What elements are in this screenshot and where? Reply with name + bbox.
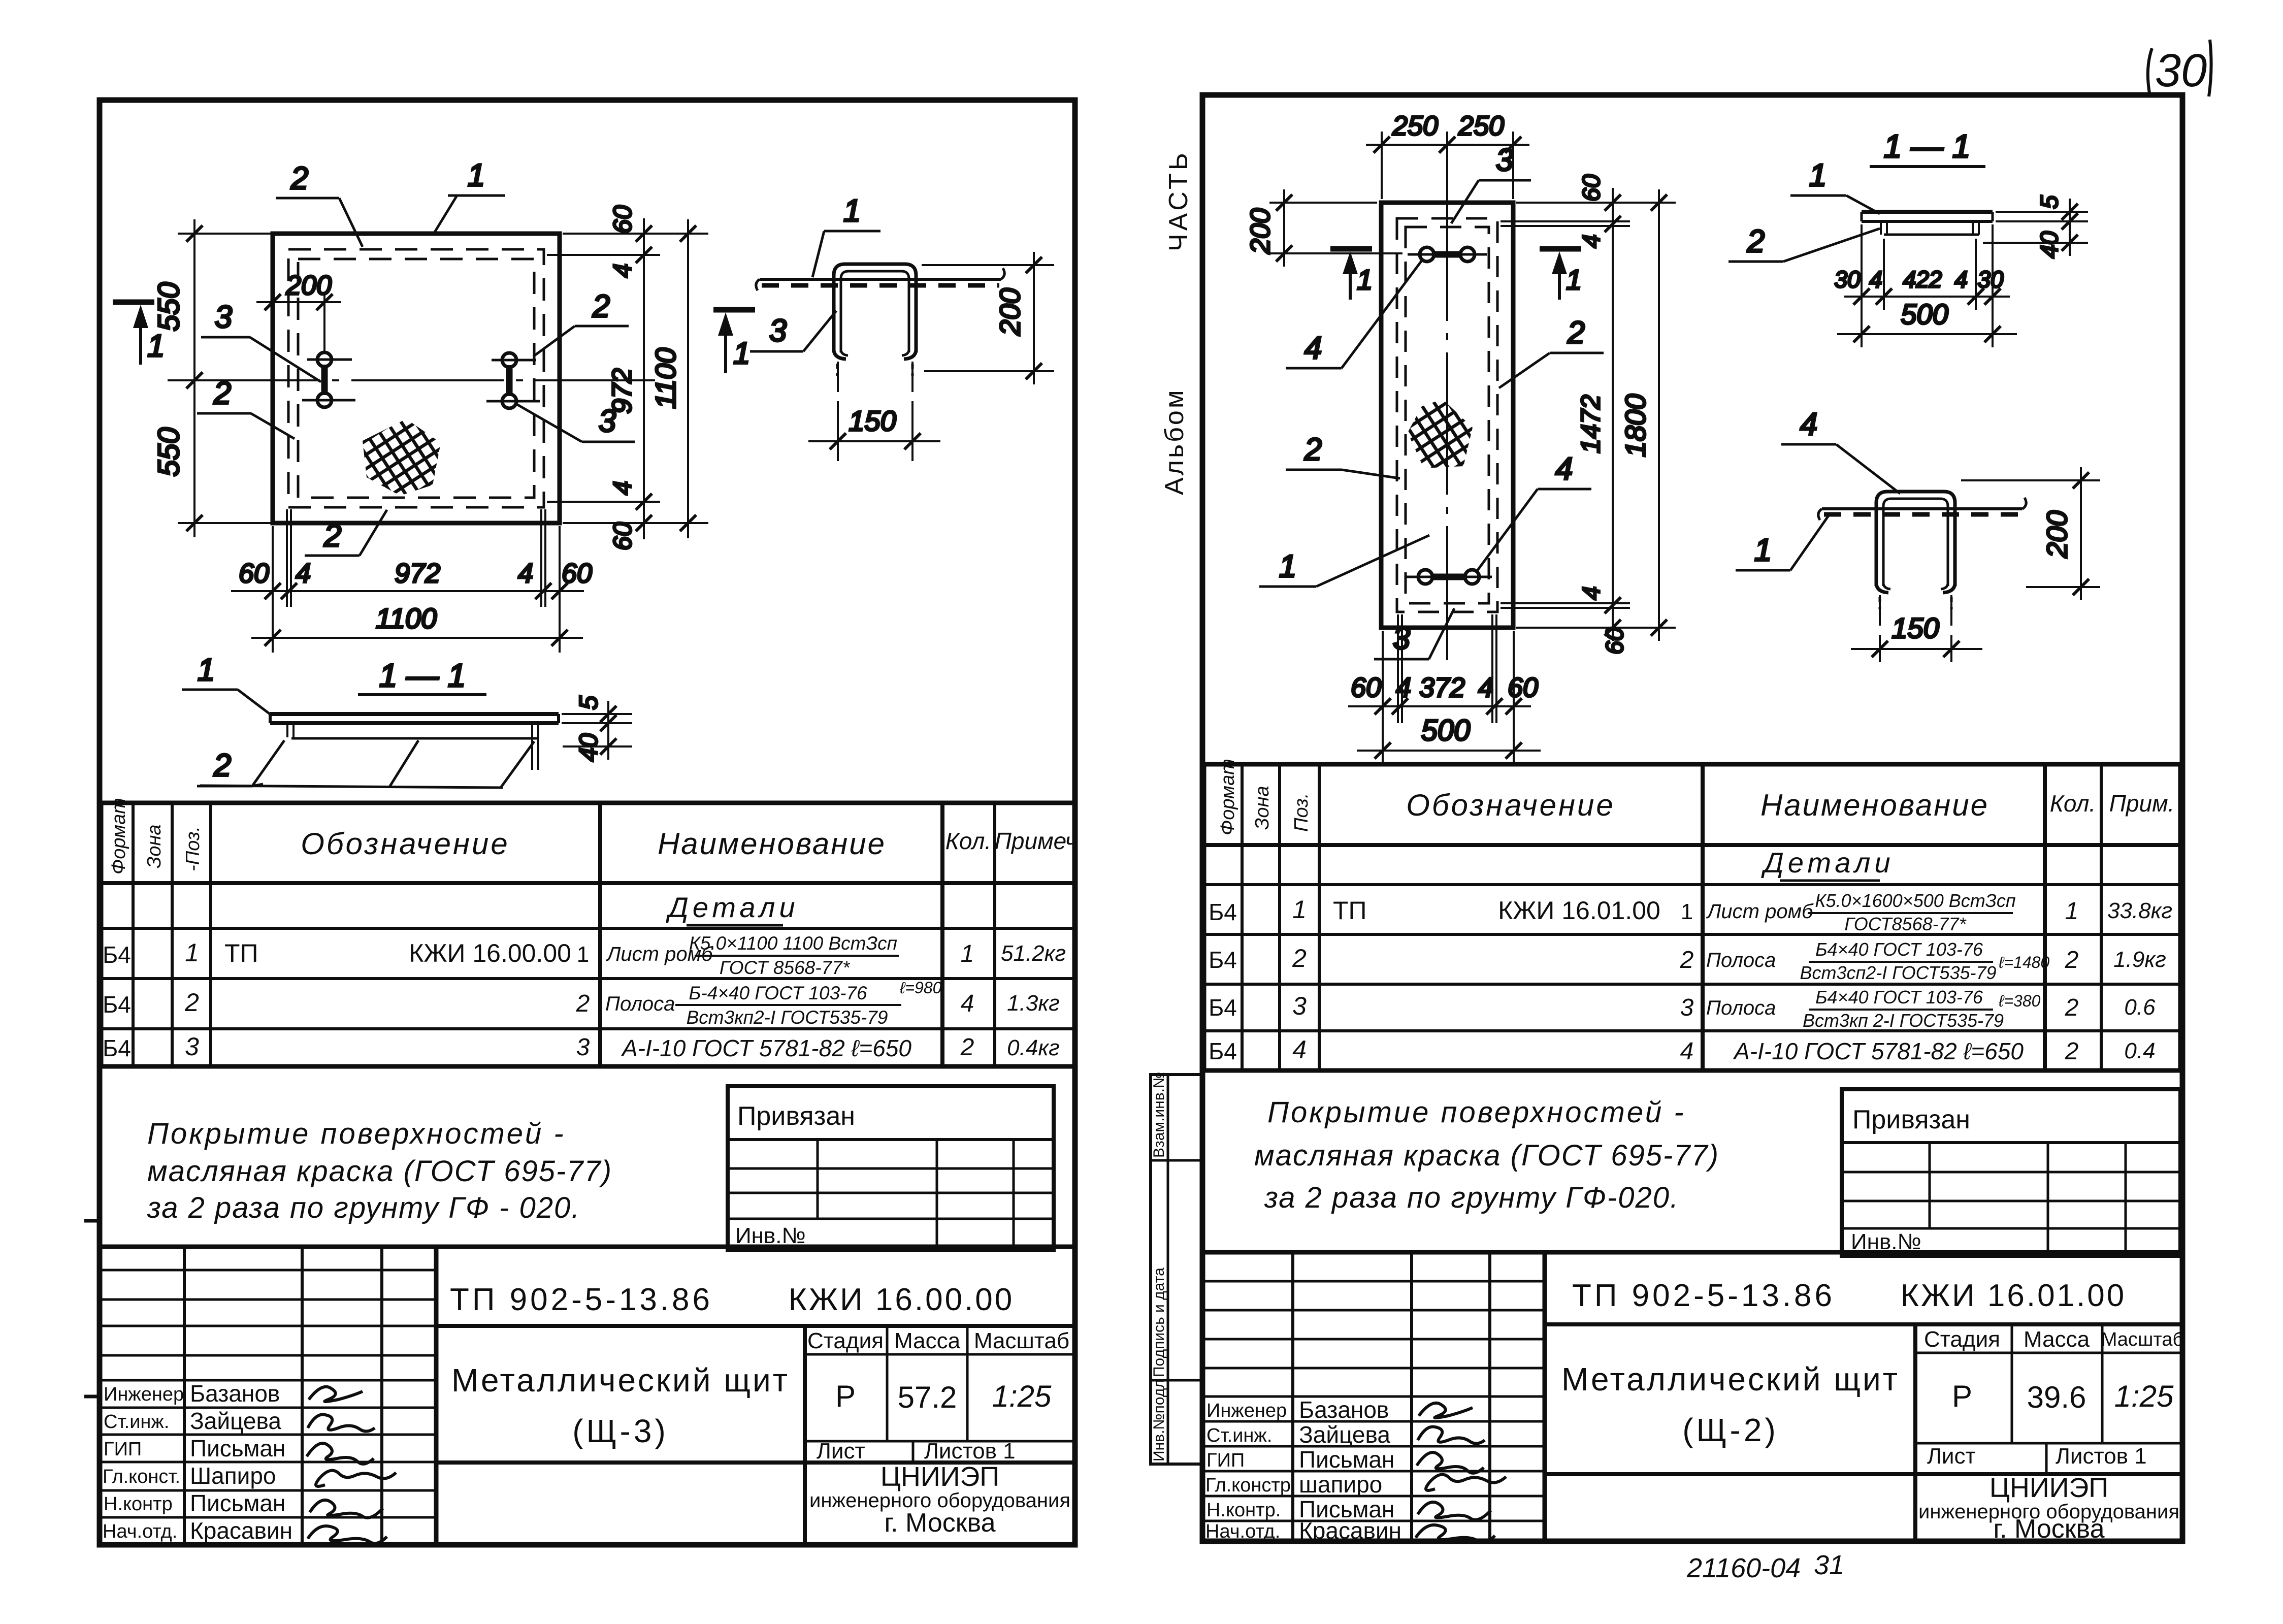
- dim 150 (clamp width): [837, 362, 839, 461]
- dim 200 (left): [1245, 189, 1403, 267]
- svg-text:2: 2: [184, 988, 199, 1017]
- title block grid: [1202, 1250, 2182, 1255]
- dims bottom: 60 4 372 4 60: [1348, 614, 1538, 723]
- svg-text:1: 1: [1279, 549, 1296, 584]
- plate 1 (section): [1862, 210, 1993, 214]
- svg-text:Поз.: Поз.: [1291, 793, 1312, 832]
- svg-text:шапиро: шапиро: [1299, 1471, 1382, 1498]
- svg-text:2: 2: [1567, 315, 1585, 350]
- handle 3 (right): [486, 353, 540, 408]
- svg-text:2: 2: [960, 1034, 974, 1061]
- svg-text:Инженер: Инженер: [104, 1384, 184, 1405]
- RIGHT-SECTION-11: [1728, 128, 2088, 347]
- page number 30: [2148, 40, 2211, 96]
- svg-text:Б4: Б4: [103, 1035, 131, 1061]
- section mark 1 (left): [113, 302, 165, 365]
- svg-text:Масштаб: Масштаб: [974, 1328, 1069, 1353]
- dim 200: [1961, 479, 2100, 481]
- svg-text:(Щ-2): (Щ-2): [1682, 1412, 1779, 1448]
- RIGHT-TITLEBLOCK: [1202, 1252, 2183, 1544]
- svg-text:1: 1: [961, 940, 974, 967]
- dim 500: [1837, 298, 2017, 347]
- LEFT-NOTE-AND-PRIV: [147, 1086, 1054, 1250]
- RIGHT-NOTE-AND-PRIV: [1254, 1089, 2180, 1256]
- handle 3 (left): [302, 352, 355, 407]
- margin boxes (right sheet): [1151, 1075, 1202, 1464]
- svg-text:Красавин: Красавин: [1299, 1517, 1401, 1544]
- svg-text:1: 1: [1809, 158, 1827, 193]
- fraction bars + detail underline: [687, 924, 783, 927]
- svg-text:1: 1: [733, 336, 750, 370]
- svg-text:5: 5: [2036, 195, 2063, 209]
- svg-text:Прим.: Прим.: [2109, 790, 2175, 817]
- callout 3 (left): [201, 300, 321, 382]
- svg-text:ТП: ТП: [224, 939, 258, 967]
- svg-text:1: 1: [2065, 898, 2079, 925]
- svg-text:г. Москва: г. Москва: [1993, 1514, 2104, 1544]
- svg-text:Письман: Письман: [190, 1435, 285, 1461]
- svg-text:3: 3: [1680, 994, 1694, 1021]
- svg-text:33.8кг: 33.8кг: [2107, 898, 2172, 923]
- dim 40: [1983, 242, 2088, 244]
- svg-text:1:25: 1:25: [992, 1379, 1052, 1413]
- svg-text:60: 60: [608, 205, 637, 234]
- svg-text:1100: 1100: [649, 348, 681, 409]
- dim 5: [1996, 211, 2088, 213]
- svg-text:Б4: Б4: [103, 941, 131, 968]
- svg-text:А-I-10 ГОСТ 5781-82 ℓ=650: А-I-10 ГОСТ 5781-82 ℓ=650: [621, 1035, 911, 1061]
- hatch patch: [1408, 399, 1473, 468]
- svg-text:1: 1: [198, 653, 215, 688]
- svg-text:(Щ-3): (Щ-3): [572, 1413, 669, 1449]
- RIGHT-CHANNEL-DETAIL: [1736, 407, 2100, 662]
- handle 4 (top): [1408, 247, 1487, 262]
- coating note: [147, 1117, 612, 1224]
- svg-text:4: 4: [1954, 266, 1968, 293]
- svg-text:1: 1: [1681, 899, 1693, 924]
- svg-text:0.6: 0.6: [2124, 995, 2156, 1020]
- svg-text:Ст.инж.: Ст.инж.: [104, 1411, 169, 1433]
- name box: [1913, 1324, 1917, 1474]
- names: [1299, 1396, 1401, 1544]
- svg-text:4: 4: [608, 264, 637, 278]
- svg-text:Лист: Лист: [817, 1439, 865, 1464]
- svg-text:Зайцева: Зайцева: [1299, 1421, 1390, 1448]
- svg-text:4: 4: [1578, 587, 1605, 600]
- svg-text:Письман: Письман: [1299, 1446, 1394, 1473]
- underline + fraction bars: [1780, 880, 1880, 882]
- svg-text:60: 60: [1508, 672, 1538, 703]
- svg-text:Подпись и дата: Подпись и дата: [1151, 1268, 1167, 1377]
- svg-text:1800: 1800: [1619, 394, 1651, 458]
- strip 2 bottom edge: [291, 737, 539, 740]
- svg-text:3: 3: [185, 1032, 199, 1061]
- svg-text:ТП: ТП: [1333, 896, 1366, 925]
- svg-text:Б-4×40 ГОСТ 103-76: Б-4×40 ГОСТ 103-76: [689, 983, 867, 1003]
- RIGHT-SHEET-FRAME: [1202, 95, 2182, 1541]
- svg-text:ГИП: ГИП: [1206, 1450, 1245, 1471]
- svg-text:Инженер: Инженер: [1206, 1400, 1287, 1421]
- svg-text:3: 3: [1292, 992, 1307, 1020]
- svg-text:4: 4: [1292, 1035, 1307, 1064]
- svg-text:2: 2: [592, 289, 610, 324]
- svg-text:КЖИ 16.00.00: КЖИ 16.00.00: [409, 939, 571, 967]
- svg-text:Кол.: Кол.: [945, 828, 991, 854]
- section mark 1 (detail): [713, 307, 755, 313]
- svg-text:500: 500: [1421, 714, 1471, 747]
- svg-text:57.2: 57.2: [898, 1380, 957, 1414]
- svg-text:К5.0×1600×500 ВстЗсп: К5.0×1600×500 ВстЗсп: [1815, 890, 2016, 911]
- svg-text:4: 4: [1304, 331, 1322, 366]
- svg-text:Масштаб: Масштаб: [2101, 1329, 2184, 1350]
- signatures (squiggles): [307, 1387, 396, 1543]
- strip 2 legs: [1880, 221, 1882, 235]
- callout 2 (bottom): [305, 510, 387, 556]
- svg-text:1472: 1472: [1576, 395, 1606, 453]
- LEFT-SHEET-FRAME: [100, 100, 1075, 1545]
- svg-text:2: 2: [2065, 947, 2079, 973]
- svg-text:250: 250: [1392, 111, 1438, 141]
- designation row: [436, 1324, 1075, 1328]
- svg-text:2: 2: [1680, 947, 1694, 973]
- svg-text:Покрытие поверхностей -: Покрытие поверхностей -: [147, 1117, 566, 1150]
- svg-text:1: 1: [1357, 264, 1373, 296]
- dim 200 (clamp height): [922, 264, 1054, 266]
- svg-text:4: 4: [961, 990, 974, 1017]
- coating note: [1254, 1096, 1719, 1214]
- svg-text:1 — 1: 1 — 1: [1884, 128, 1971, 165]
- svg-text:4: 4: [1800, 407, 1817, 442]
- svg-text:1: 1: [1566, 264, 1582, 296]
- hatch patch: [363, 419, 441, 496]
- svg-text:ℓ=980: ℓ=980: [899, 979, 942, 997]
- svg-text:3: 3: [769, 313, 787, 348]
- svg-text:3: 3: [599, 404, 616, 439]
- svg-text:Примеч: Примеч: [995, 828, 1078, 854]
- signature labels: [103, 1384, 184, 1542]
- svg-text:200: 200: [2041, 510, 2073, 558]
- strip hidden edges (dashed): [1397, 218, 1497, 612]
- svg-text:21160-04: 21160-04: [1686, 1553, 1801, 1583]
- LEFT-CHANNEL-DETAIL: [713, 193, 1054, 461]
- svg-text:Гл.констр: Гл.констр: [1205, 1475, 1291, 1496]
- svg-text:1.9кг: 1.9кг: [2113, 947, 2166, 972]
- right leg pin: [531, 725, 533, 770]
- names: [190, 1380, 292, 1544]
- svg-text:ЧАСТЬ: ЧАСТЬ: [1164, 150, 1193, 251]
- svg-text:Привязан: Привязан: [737, 1101, 855, 1131]
- svg-text:1 — 1: 1 — 1: [379, 657, 466, 694]
- dim 250/250 (top): [1366, 111, 1529, 199]
- callout 2 (top): [276, 161, 363, 247]
- svg-text:3: 3: [1393, 621, 1410, 656]
- parts table grid: [1204, 764, 2180, 1070]
- RIGHT-PLAN: [1245, 111, 1676, 764]
- svg-text:КЖИ 16.01.00: КЖИ 16.01.00: [1498, 896, 1660, 925]
- dim bottom: 60 4 972 4 60: [231, 509, 592, 607]
- designation row: [1545, 1322, 2182, 1326]
- parts table grid: [101, 803, 1075, 1066]
- svg-text:150: 150: [849, 405, 896, 437]
- svg-text:2: 2: [1304, 432, 1322, 467]
- svg-text:масляная краска (ГОСТ 695-77): масляная краска (ГОСТ 695-77): [147, 1155, 612, 1188]
- svg-text:Нач.отд.: Нач.отд.: [1205, 1521, 1280, 1542]
- svg-text:Б4×40 ГОСТ 103-76: Б4×40 ГОСТ 103-76: [1815, 939, 1983, 960]
- signatures (squiggles): [1416, 1403, 1506, 1542]
- svg-text:Б4: Б4: [1209, 994, 1237, 1021]
- svg-text:4: 4: [1396, 672, 1411, 703]
- callout 2 (left low): [197, 376, 295, 439]
- plate sheet 1 (plan): [1381, 203, 1513, 628]
- svg-text:Взам.инв.№: Взам.инв.№: [1151, 1072, 1167, 1158]
- svg-text:0.4: 0.4: [2124, 1038, 2155, 1063]
- svg-text:4: 4: [1478, 672, 1493, 703]
- svg-text:40: 40: [574, 733, 603, 762]
- svg-text:Детали: Детали: [1760, 847, 1894, 879]
- svg-text:372: 372: [1419, 672, 1465, 703]
- svg-text:Шапиро: Шапиро: [190, 1463, 276, 1489]
- handle 4 (bottom): [1406, 570, 1492, 584]
- plate 1 (section): [270, 712, 559, 716]
- svg-text:Детали: Детали: [665, 891, 799, 923]
- binding box (Привязан): [728, 1086, 1054, 1250]
- svg-text:ЦНИИЭП: ЦНИИЭП: [880, 1461, 999, 1492]
- svg-text:Б4: Б4: [1209, 1038, 1237, 1064]
- svg-text:200: 200: [1245, 208, 1276, 254]
- svg-text:2: 2: [213, 376, 231, 411]
- svg-text:60: 60: [1578, 174, 1605, 202]
- svg-text:Металлический щит: Металлический щит: [1561, 1361, 1900, 1398]
- svg-text:Б4: Б4: [1209, 947, 1237, 973]
- svg-text:200: 200: [285, 270, 332, 301]
- svg-text:Покрытие поверхностей -: Покрытие поверхностей -: [1267, 1096, 1686, 1129]
- svg-text:200: 200: [994, 288, 1026, 336]
- svg-text:Полоса: Полоса: [605, 993, 675, 1015]
- svg-text:1: 1: [468, 158, 485, 193]
- svg-text:3: 3: [215, 300, 232, 335]
- svg-text:Полоса: Полоса: [1706, 949, 1776, 971]
- svg-text:Вст3кп 2-I ГОСТ535-79: Вст3кп 2-I ГОСТ535-79: [1803, 1010, 2004, 1031]
- svg-text:ТП 902-5-13.86: ТП 902-5-13.86: [450, 1282, 713, 1317]
- dim 150: [1879, 595, 1881, 661]
- svg-text:51.2кг: 51.2кг: [1001, 941, 1066, 966]
- svg-text:2: 2: [1292, 944, 1307, 972]
- doc number 21160-04 31: [1686, 1550, 1844, 1583]
- centerline: [168, 379, 655, 381]
- svg-text:Листов 1: Листов 1: [924, 1439, 1016, 1464]
- svg-text:Красавин: Красавин: [190, 1517, 292, 1544]
- svg-text:1: 1: [577, 942, 589, 967]
- svg-text:ГОСТ 8568-77*: ГОСТ 8568-77*: [720, 957, 851, 978]
- svg-text:4: 4: [1869, 266, 1882, 293]
- svg-text:ГИП: ГИП: [104, 1439, 142, 1460]
- svg-text:1100: 1100: [376, 602, 437, 634]
- svg-text:4: 4: [296, 558, 311, 589]
- svg-text:500: 500: [1901, 298, 1948, 330]
- svg-text:2: 2: [2065, 994, 2079, 1021]
- svg-text:4: 4: [608, 481, 637, 495]
- svg-text:150: 150: [1891, 612, 1939, 644]
- callout 1 (top): [433, 158, 505, 235]
- signature labels: [1205, 1400, 1291, 1542]
- svg-text:1: 1: [843, 193, 861, 229]
- binding box (Привязан): [1842, 1089, 2180, 1256]
- svg-text:60: 60: [1351, 672, 1381, 703]
- RIGHT-TABLE: [1204, 759, 2180, 1070]
- svg-text:Нач.отд.: Нач.отд.: [103, 1521, 177, 1542]
- dim 500 (bottom): [1357, 714, 1541, 764]
- plate 1 (edge view): [1822, 507, 2023, 510]
- name box: [803, 1326, 807, 1463]
- svg-text:ℓ=380: ℓ=380: [1998, 992, 2041, 1010]
- svg-text:1: 1: [147, 329, 165, 364]
- svg-text:Базанов: Базанов: [190, 1380, 280, 1407]
- plate sheet 1 (plan): [273, 234, 560, 523]
- svg-text:Зона: Зона: [144, 824, 165, 868]
- svg-text:Базанов: Базанов: [1299, 1396, 1389, 1423]
- svg-text:Стадия: Стадия: [807, 1328, 884, 1353]
- svg-text:31: 31: [1814, 1550, 1844, 1580]
- svg-text:Б4: Б4: [103, 991, 131, 1018]
- dims 30 4 422 4 30: [1834, 224, 2010, 310]
- svg-text:Лист ромб: Лист ромб: [1706, 900, 1814, 923]
- svg-text:Привязан: Привязан: [1852, 1105, 1970, 1134]
- svg-text:0.4кг: 0.4кг: [1007, 1035, 1060, 1060]
- svg-text:1.3кг: 1.3кг: [1007, 991, 1060, 1016]
- svg-text:за 2 раза по грунту ГФ - 020: за 2 раза по грунту ГФ - 020.: [147, 1191, 580, 1224]
- svg-text:1: 1: [1754, 533, 1772, 568]
- svg-text:Зайцева: Зайцева: [190, 1408, 281, 1434]
- svg-text:ГОСТ8568-77*: ГОСТ8568-77*: [1844, 914, 1966, 934]
- svg-text:4: 4: [518, 558, 533, 589]
- svg-text:Инв.№подл: Инв.№подл: [1151, 1379, 1167, 1461]
- svg-text:550: 550: [152, 282, 185, 332]
- svg-text:ТП 902-5-13.86: ТП 902-5-13.86: [1572, 1278, 1835, 1313]
- svg-text:Б4: Б4: [1209, 899, 1237, 925]
- svg-text:2: 2: [290, 161, 308, 196]
- svg-text:Полоса: Полоса: [1706, 997, 1776, 1019]
- svg-text:Кол.: Кол.: [2050, 790, 2096, 817]
- svg-text:39.6: 39.6: [2027, 1380, 2086, 1414]
- svg-text:ЦНИИЭП: ЦНИИЭП: [1990, 1473, 2108, 1503]
- svg-text:30: 30: [1834, 266, 1861, 293]
- svg-text:К5.0×1100 1100 ВстЗсп: К5.0×1100 1100 ВстЗсп: [689, 933, 897, 954]
- svg-text:Ст.инж.: Ст.инж.: [1206, 1425, 1272, 1446]
- svg-text:Металлический щит: Металлический щит: [451, 1362, 790, 1399]
- left leg: [286, 725, 288, 737]
- svg-text:Формат: Формат: [108, 798, 129, 874]
- svg-text:60: 60: [239, 558, 269, 589]
- svg-text:4: 4: [1578, 235, 1605, 248]
- svg-text:Масса: Масса: [894, 1328, 961, 1353]
- LEFT-PLAN: [113, 158, 708, 653]
- svg-text:2: 2: [323, 518, 341, 554]
- svg-text:Р: Р: [1952, 1379, 1972, 1413]
- dim 200 (to handle axis): [256, 270, 341, 351]
- svg-text:КЖИ 16.01.00: КЖИ 16.01.00: [1901, 1278, 2127, 1313]
- svg-text:Формат: Формат: [1217, 759, 1238, 835]
- svg-text:Вст3сп2-I ГОСТ535-79: Вст3сп2-I ГОСТ535-79: [1800, 962, 1996, 983]
- svg-text:4: 4: [1680, 1038, 1694, 1065]
- callout 3 (right low): [515, 403, 635, 442]
- svg-text:550: 550: [152, 428, 185, 477]
- svg-text:Б4×40 ГОСТ 103-76: Б4×40 ГОСТ 103-76: [1815, 987, 1983, 1008]
- svg-text:Стадия: Стадия: [1924, 1327, 2000, 1352]
- svg-text:за 2 раза по грунту ГФ-020: за 2 раза по грунту ГФ-020.: [1264, 1181, 1679, 1214]
- svg-text:30: 30: [2155, 45, 2207, 96]
- svg-text:Масса: Масса: [2024, 1327, 2090, 1352]
- svg-text:Лист: Лист: [1927, 1444, 1976, 1469]
- svg-text:-Поз.: -Поз.: [182, 826, 204, 871]
- svg-text:3: 3: [576, 1034, 590, 1061]
- svg-text:60: 60: [562, 558, 592, 589]
- stage/mass/scale: [805, 1353, 1075, 1356]
- floor parallelograms: [200, 786, 503, 788]
- section mark 1 (right): [1540, 249, 1582, 300]
- svg-text:2: 2: [213, 748, 231, 783]
- plate 1 (edge view): [760, 278, 1001, 281]
- svg-text:ℓ=1480: ℓ=1480: [1998, 953, 2049, 971]
- LEFT-TITLEBLOCK: [100, 1247, 1075, 1545]
- title block grid: [100, 1245, 1075, 1249]
- dim 5: [562, 713, 632, 715]
- svg-text:60: 60: [1602, 627, 1628, 655]
- svg-text:60: 60: [608, 522, 637, 550]
- svg-text:1: 1: [185, 938, 199, 967]
- stage/mass/scale: [1915, 1352, 2182, 1354]
- svg-text:Вст3кп2-I ГОСТ535-79: Вст3кп2-I ГОСТ535-79: [687, 1007, 888, 1028]
- svg-text:Н.контр: Н.контр: [104, 1493, 173, 1515]
- svg-text:Листов 1: Листов 1: [2056, 1444, 2147, 1469]
- svg-text:2: 2: [576, 990, 590, 1017]
- svg-text:Альбом: Альбом: [1160, 388, 1189, 495]
- svg-text:2: 2: [2065, 1038, 2079, 1065]
- svg-text:Н.контр.: Н.контр.: [1206, 1500, 1281, 1521]
- svg-text:Письман: Письман: [190, 1490, 285, 1516]
- dim column right: 60 4 972 4 60: [547, 205, 708, 550]
- svg-text:Обозначение: Обозначение: [301, 827, 510, 861]
- strip 2 hidden edges (dashed): [288, 249, 544, 507]
- dim 1800: [1619, 189, 1672, 641]
- centerline vertical: [1446, 179, 1448, 660]
- LEFT-TABLE: [101, 798, 1077, 1066]
- svg-text:422: 422: [1903, 266, 1942, 293]
- dim 1100 (bottom): [251, 602, 583, 653]
- svg-text:масляная краска (ГОСТ 695-77: масляная краска (ГОСТ 695-77): [1254, 1139, 1719, 1172]
- svg-text:30: 30: [1977, 266, 2004, 293]
- dim 1100 (right): [649, 219, 701, 538]
- svg-text:3: 3: [1496, 143, 1513, 178]
- clamp 3 (C-channel section): [834, 264, 916, 352]
- svg-text:Гл.конст.: Гл.конст.: [103, 1466, 180, 1487]
- LEFT-SECTION-11: [182, 653, 632, 788]
- svg-text:г. Москва: г. Москва: [884, 1508, 995, 1538]
- svg-text:Наименование: Наименование: [1760, 788, 1989, 822]
- svg-text:4: 4: [1555, 451, 1573, 486]
- svg-text:Наименование: Наименование: [658, 827, 886, 861]
- dim 550 upper / 550 lower (left): [152, 219, 277, 537]
- svg-text:А-I-10 ГОСТ 5781-82 ℓ=650: А-I-10 ГОСТ 5781-82 ℓ=650: [1733, 1038, 2024, 1064]
- svg-text:1:25: 1:25: [2114, 1379, 2174, 1413]
- svg-text:1: 1: [1292, 895, 1307, 924]
- svg-text:КЖИ 16.00.00: КЖИ 16.00.00: [789, 1282, 1015, 1317]
- svg-text:5: 5: [574, 696, 603, 710]
- svg-text:250: 250: [1458, 111, 1504, 141]
- section mark 1 (left): [1330, 249, 1373, 300]
- svg-text:Обозначение: Обозначение: [1406, 788, 1615, 822]
- dims right inner: 60 4 1472 4 60: [1501, 174, 1676, 655]
- callout 2 (right mid): [533, 289, 629, 356]
